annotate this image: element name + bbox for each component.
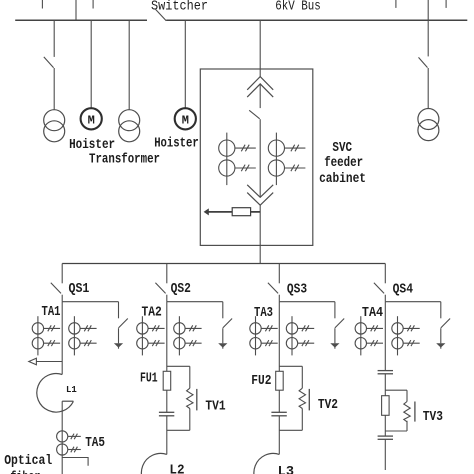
wire branch 2 main upper [166,302,168,413]
capacitor branch 4 lower [378,436,393,439]
switch Switcher blade [155,9,166,21]
wire TA5 tail 2 [68,447,81,453]
motor M2 [175,108,196,129]
disconnector QS4 [374,264,385,302]
svg-text:QS2: QS2 [171,282,191,297]
fuse branch 4 [382,396,390,416]
wire T2 feeder [128,20,130,110]
current transformer pair cabinet left [219,133,256,186]
earthing switch branch 4 [436,302,450,349]
switch T1 blade [44,57,54,68]
wire TV1 branch upper [189,366,191,388]
svg-text:cabinet: cabinet [319,172,366,187]
wire branch 3 TV junction [279,365,302,367]
wire TV3 return [385,430,407,432]
svg-text:Hoister: Hoister [154,137,199,152]
wire branch 4 mid [384,374,386,436]
drawout contact lower chevron 1 [247,185,273,198]
svg-text:FU1: FU1 [140,371,158,386]
reactor L1 [37,374,74,413]
wire branch 4 TV junction [385,389,407,391]
current transformer pair TA1 left [32,316,60,355]
fuse FU2 [276,371,284,390]
wire TV3 branch lower [406,421,408,431]
svg-text:Transformer: Transformer [89,153,160,168]
wire branch 4 main upper [384,302,386,371]
wire branch 3 main lower [278,416,280,455]
core bar TV1 [196,389,198,411]
current transformer pair TA2 right [174,316,202,355]
svg-text:Optical: Optical [4,454,52,469]
wire TV3 branch upper [406,390,408,401]
svg-text:QS4: QS4 [393,283,413,298]
transformer T2 [119,110,140,142]
svg-text:feeder: feeder [324,156,363,171]
svg-text:L1: L1 [66,384,77,395]
capacitor branch 2 [159,412,174,416]
wire cabinet switch to lower chevrons [259,119,261,197]
current transformer pair TA3 right [286,316,314,355]
current transformer pair TA4 left [355,316,383,355]
svg-text:TA5: TA5 [85,436,105,451]
arrow branch 1 outgoing [29,358,37,365]
svg-text:TA4: TA4 [362,306,383,321]
svg-text:L3: L3 [278,465,294,474]
wire branch 1 arrow line [36,361,62,363]
current transformer pair TA1 right [69,316,97,355]
wire QS4 junction horizontal [385,301,441,303]
feeder stub F above right bus [445,0,447,8]
fuse FU1 [163,371,171,390]
svg-text:TV3: TV3 [423,410,443,425]
drawout contact lower chevron 2 [247,193,273,206]
bus 6kV right section [166,19,467,21]
current transformer pair TA3 left [250,316,278,355]
svg-text:TV1: TV1 [205,400,225,415]
svg-text:Hoister: Hoister [69,138,115,153]
capacitor branch 4 upper [378,371,393,374]
wire cabinet main drop [259,20,261,76]
current transformer TA5 circle 2 [57,444,68,455]
bus lower distribution [62,263,385,265]
wire branch 4 bottom [384,439,386,470]
svg-text:M: M [88,113,95,127]
wire cabinet lower drop [259,205,261,263]
disconnector QS3 [268,264,279,302]
winding TV1 zigzag [187,388,193,408]
feeder stub C above left bus [92,0,94,9]
wire TV2 return [279,429,302,431]
wire M2 feeder [184,20,186,108]
svg-text:fiber: fiber [10,471,40,474]
wire cabinet between chevron and switch [259,84,261,108]
wire TV2 branch lower [301,409,303,431]
svg-text:TA1: TA1 [42,305,61,320]
core bar TV2 [308,389,310,411]
svg-text:SVC: SVC [332,141,352,156]
svg-text:TA3: TA3 [254,306,273,321]
svg-text:M: M [182,113,189,127]
bus 6kV left section [15,19,147,21]
svg-text:6kV Bus: 6kV Bus [275,0,321,15]
wire branch 1 lower [61,401,63,474]
wire branch 3 main upper [278,302,280,413]
svg-text:Switcher: Switcher [151,0,208,15]
wire TV1 return [167,429,190,431]
wire TV1 branch lower [189,409,191,431]
winding TV2 zigzag [299,388,305,408]
feeder stub B above left bus [75,0,77,20]
wire branch 2 main lower [166,416,168,455]
wire damping branch with arrow [206,211,261,213]
feeder stub A above left bus [41,0,43,9]
earthing switch branch 1 [114,302,128,349]
current transformer TA5 circle 1 [57,431,68,442]
svg-text:TV2: TV2 [318,398,338,413]
wire T1 feeder upper [53,20,55,57]
motor M1 [81,108,102,129]
transformer T3 [418,109,439,141]
wire branch 1 main [61,302,63,375]
current transformer pair cabinet right [268,133,305,186]
SVC cabinet box [200,69,312,245]
current transformer pair TA4 right [392,316,420,355]
disconnector QS2 [155,264,166,302]
svg-text:TA2: TA2 [142,305,162,320]
winding TV3 zigzag [404,402,410,422]
capacitor branch 3 [271,412,286,416]
wire T1 feeder lower [53,68,55,110]
wire T3 feeder upper [427,0,429,56]
resistor damping [232,208,250,216]
core bar TV3 [414,402,416,422]
wire TV2 branch upper [301,366,303,388]
wire QS1 junction horizontal [62,301,118,303]
wire TA5 tail 1 [68,434,81,440]
earthing switch branch 2 [218,302,232,349]
reactor L2 [141,453,178,474]
wire QS3 junction horizontal [279,301,335,303]
reactor L3 [254,453,291,474]
current transformer pair TA2 left [137,316,165,355]
switch T3 blade [419,57,428,67]
wire T3 feeder lower [427,68,429,109]
switch cabinet blade [249,110,260,119]
wire branch 2 TV junction [167,365,190,367]
svg-text:QS1: QS1 [69,282,90,297]
wire QS2 junction horizontal [167,301,223,303]
wire M1 feeder [90,20,92,108]
disconnector QS1 [51,264,62,302]
arrow damping branch head [204,208,209,215]
feeder stub D above right bus [395,0,397,8]
svg-text:FU2: FU2 [251,374,271,389]
drawout contact upper chevron 2 [247,84,273,97]
svg-text:L2: L2 [169,464,184,474]
drawout contact upper chevron 1 [247,77,273,90]
transformer T1 [44,110,65,142]
svg-text:QS3: QS3 [287,283,307,298]
earthing switch branch 3 [330,302,344,349]
wire branch 1 tee [62,458,88,466]
